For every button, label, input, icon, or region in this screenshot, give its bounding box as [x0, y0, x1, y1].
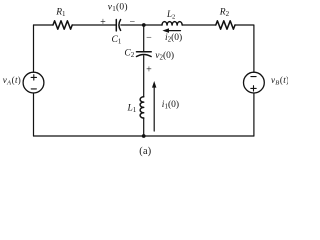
wire bottom	[34, 135, 254, 137]
wire node to C2	[143, 25, 145, 51]
svg-text:R1: R1	[55, 7, 66, 18]
svg-text:v2(0): v2(0)	[155, 50, 174, 62]
inductor L2	[162, 22, 182, 25]
wire R1 to C1	[72, 24, 116, 26]
wire R2 to top-right corner and down	[235, 25, 254, 72]
voltage source vA	[23, 72, 44, 93]
arrow i1(0) shaft	[153, 87, 155, 132]
resistor R2	[216, 21, 235, 29]
wire C2 to L1	[143, 56, 145, 97]
resistor R1	[53, 21, 72, 29]
capacitor C1	[116, 20, 120, 31]
svg-text:vA(t): vA(t)	[3, 75, 21, 86]
svg-text:v1(0): v1(0)	[108, 2, 128, 14]
inductor L1	[140, 97, 144, 118]
svg-text:+: +	[146, 65, 152, 76]
svg-text:i1(0): i1(0)	[162, 99, 179, 111]
svg-text:R2: R2	[219, 7, 230, 18]
svg-text:C1: C1	[112, 35, 122, 46]
arrow i2(0) shaft	[167, 30, 181, 32]
wire L1 to bottom node	[143, 118, 145, 136]
wire top-left segment	[34, 24, 54, 26]
node A junction dot	[142, 23, 146, 27]
wire C1 to node	[121, 24, 162, 26]
svg-text:vB(t): vB(t)	[271, 75, 288, 86]
svg-text:L1: L1	[127, 103, 137, 114]
svg-text:(a): (a)	[139, 146, 151, 157]
arrow i1(0) head	[152, 81, 156, 88]
wire L2 to R2	[182, 24, 216, 26]
svg-text:−: −	[146, 33, 152, 44]
plus sign inside vB	[251, 86, 256, 91]
svg-text:+: +	[100, 17, 106, 28]
minus sign inside vB	[251, 76, 256, 78]
wire vA to top-left corner	[33, 25, 35, 72]
wire left vertical lower	[33, 93, 35, 136]
wire vB to bottom-right corner	[253, 93, 255, 136]
capacitor C2	[137, 52, 152, 57]
svg-text:i2(0): i2(0)	[165, 32, 182, 44]
arrow i2(0) head	[162, 28, 169, 33]
plus sign inside vA	[31, 75, 36, 80]
svg-text:C2: C2	[124, 49, 134, 60]
junction dot bottom node	[142, 134, 146, 138]
svg-text:−: −	[129, 17, 135, 28]
minus sign inside vA	[31, 88, 36, 90]
voltage source vB	[244, 72, 265, 93]
